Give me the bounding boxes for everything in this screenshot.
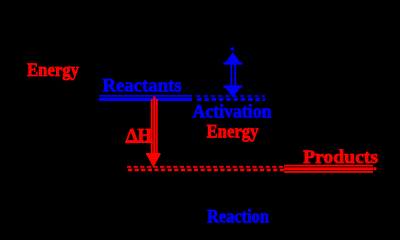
reactants level solid line	[99, 95, 192, 101]
delta-H underline bar	[125, 141, 153, 143]
svg-text:Reactants: Reactants	[103, 76, 182, 97]
svg-text:Reaction: Reaction	[207, 207, 269, 228]
reactants level dashed extension wire	[196, 96, 265, 99]
products level dashed line	[127, 167, 284, 170]
delta-H arrowhead	[146, 153, 161, 168]
peak tip dot	[231, 48, 234, 51]
svg-text:Products: Products	[303, 147, 378, 168]
delta-H arrow shaft wire	[151, 97, 158, 154]
products level solid line	[284, 165, 377, 173]
svg-text:Energy: Energy	[27, 60, 79, 81]
activation energy double arrow	[223, 52, 242, 98]
svg-text:Activation: Activation	[193, 101, 272, 122]
svg-text:ΔH: ΔH	[126, 126, 152, 147]
svg-text:Energy: Energy	[207, 122, 259, 143]
